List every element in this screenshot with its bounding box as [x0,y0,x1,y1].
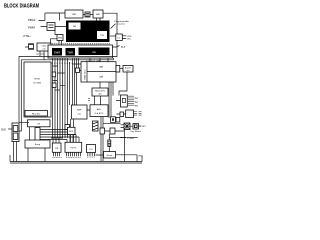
svg-text:AA: AA [92,50,96,54]
svg-text:ckt: ckt [43,48,46,51]
svg-text:Row dec: Row dec [32,114,41,116]
svg-text:det: det [98,93,101,96]
svg-text:PBC0: PBC0 [28,18,36,22]
svg-text:KEY: KEY [142,126,147,128]
svg-text:VDD: VDD [127,36,132,38]
svg-text:Multi 32%: Multi 32% [95,90,105,93]
svg-text:RAM 32×4: RAM 32×4 [84,69,87,80]
svg-text:TMP: TMP [77,110,82,112]
svg-text:A reg: A reg [35,143,41,146]
svg-text:D-b BCD: D-b BCD [95,113,104,115]
svg-text:LAB: LAB [99,66,104,69]
svg-text:TM: TM [55,148,58,150]
svg-text:A/B: A/B [96,13,100,16]
svg-text:DWR: DWR [54,50,60,54]
svg-text:TWR: TWR [67,50,73,54]
svg-text:16×16B: 16×16B [33,82,41,85]
svg-text:VLC: VLC [127,39,132,41]
svg-text:I/O: I/O [90,149,93,151]
svg-text:counter: counter [118,23,126,26]
svg-text:TIB: TIB [100,35,104,37]
svg-text:ALU: ALU [97,108,102,111]
svg-text:I R: I R [37,124,40,126]
svg-text:Key Matrix: Key Matrix [131,130,142,133]
svg-text:PWM: PWM [28,26,36,30]
svg-text:LBB: LBB [99,77,104,79]
svg-text:BLOCK DIAGRAM: BLOCK DIAGRAM [4,3,39,9]
svg-text:OSC: OSC [42,46,47,48]
svg-text:out: out [127,69,130,72]
svg-text:Reset: Reset [107,154,113,157]
svg-text:TRU: TRU [72,14,77,16]
svg-text:–X'TAL–: –X'TAL– [22,35,32,38]
svg-text:LC: LC [118,37,121,39]
svg-text:DR: DR [73,26,77,28]
svg-text:ROM: ROM [34,78,39,80]
svg-text:SI/O: SI/O [1,128,6,131]
svg-text:12 KEY: 12 KEY [127,138,135,140]
svg-text:ALA: ALA [121,46,126,49]
svg-text:P1 P2: P1 P2 [70,147,77,149]
svg-text:RES: RES [139,155,144,157]
